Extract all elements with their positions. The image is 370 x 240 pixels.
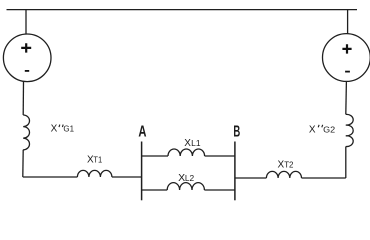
- wire: XT1 to bus A: [112, 176, 142, 178]
- source G1: [3, 34, 51, 82]
- svg-text:X: X: [309, 125, 316, 136]
- svg-text:L1: L1: [191, 139, 201, 148]
- wire: G1 top lead: [25, 10, 27, 35]
- svg-text:G2: G2: [323, 126, 336, 135]
- wire: XL2 to bus B: [204, 189, 235, 191]
- label G1 minus: [25, 70, 29, 72]
- svg-text:X: X: [51, 124, 58, 135]
- label G2 minus: [345, 71, 350, 73]
- label G2 plus: [342, 44, 351, 53]
- wire: top rail A to XL1: [142, 155, 168, 157]
- wire: G2 bottom lead: [345, 81, 348, 114]
- wire: bottom-left horizontal: [23, 176, 78, 178]
- svg-text:G1: G1: [63, 125, 74, 134]
- node B bus bar: [234, 142, 236, 201]
- source G2: [323, 34, 370, 82]
- wire: left vertical: [22, 150, 24, 177]
- inductor XT2: [266, 171, 301, 178]
- inductor XL1: [168, 149, 205, 156]
- wire: bus B to XT2: [235, 177, 267, 179]
- svg-text:B: B: [233, 124, 240, 141]
- svg-text:T2: T2: [284, 160, 294, 169]
- wire: top bus: [7, 9, 358, 11]
- inductor XL2: [167, 183, 204, 190]
- node A bus bar: [141, 142, 143, 201]
- inductor X''G2: [346, 114, 353, 146]
- inductor XT1: [77, 170, 112, 177]
- svg-text:A: A: [138, 124, 146, 141]
- wire: XT2 to right corner: [302, 177, 346, 179]
- inductor X''G1: [23, 115, 29, 150]
- wire: right vertical lower: [345, 147, 347, 179]
- wire: bottom rail A to XL2: [142, 189, 168, 191]
- wire: XL1 to bus B: [205, 155, 235, 157]
- wire: G2 top lead: [347, 10, 349, 34]
- svg-text:T1: T1: [93, 155, 102, 164]
- label G1 plus: [21, 43, 31, 52]
- wire: G1 bottom lead: [22, 81, 24, 115]
- svg-text:X: X: [184, 138, 191, 149]
- svg-text:L2: L2: [185, 174, 195, 183]
